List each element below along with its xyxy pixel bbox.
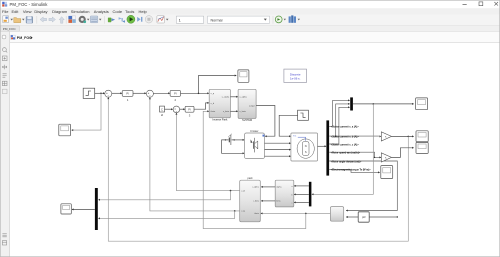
toolbar icon: stream input — [108, 18, 115, 23]
svg-text:PM_FOC: PM_FOC — [17, 36, 32, 40]
scope: speed 2a — [416, 131, 428, 142]
svg-text:u_alpha: u_alpha — [222, 97, 230, 99]
signal wire: stator current is_b to gain and mux — [329, 103, 381, 137]
svg-text:<Stator current is_c (A)>: <Stator current is_c (A)> — [331, 143, 360, 146]
svg-text:S: S — [305, 150, 307, 154]
constant block id reference — [160, 106, 165, 112]
svg-text:Simulation: Simulation — [71, 9, 90, 14]
svg-text:Normal: Normal — [211, 18, 223, 22]
node: currents branch junction — [373, 103, 375, 105]
menu bar — [0, 8, 500, 15]
wire: speed sum to PI1 — [112, 92, 122, 94]
app icon — [2, 2, 7, 7]
scope: stator currents — [416, 98, 428, 110]
wire: reference branch down to speed-ref scope — [72, 93, 101, 130]
signal wire: stator current is_a — [329, 99, 350, 126]
svg-text:PM_FOC - Simulink: PM_FOC - Simulink — [10, 2, 49, 7]
toolbar field: stop time — [176, 16, 203, 23]
breadcrumb bar — [0, 32, 500, 43]
torque step block (flipped) — [298, 110, 309, 120]
toolbar separator — [104, 16, 106, 24]
toolbar icon: settings gear — [79, 16, 90, 23]
svg-text:<Rotor speed wm (rad/s)>: <Rotor speed wm (rad/s)> — [331, 152, 361, 155]
svg-text:u_alpha: u_alpha — [239, 97, 247, 99]
sum junction speed loop — [105, 90, 112, 97]
svg-text:View: View — [23, 9, 32, 14]
svg-text:PM_FOC: PM_FOC — [3, 27, 17, 31]
wire: PI3 to inverse park u_d — [194, 103, 209, 109]
gain K2 — [381, 153, 391, 162]
wire: pi3 to angle subsystem — [346, 216, 358, 218]
wire: mux to currents scope — [353, 103, 414, 105]
svg-text:N: N — [305, 144, 307, 148]
wire: q sum to PI2 — [153, 92, 170, 94]
dc source battery — [225, 134, 235, 145]
PMSM motor block — [291, 133, 318, 161]
bus selector — [326, 120, 329, 175]
scope: iq voltage — [238, 70, 249, 82]
wire: d sum to PI3 — [180, 108, 185, 110]
palette bottom icon: model data — [2, 234, 6, 237]
model tab PM_FOC — [0, 26, 19, 32]
toolbar separator — [65, 16, 67, 24]
wire: inverter phase A to motor — [265, 142, 291, 144]
wire: thetam tap to pi3 input — [369, 216, 398, 217]
minimize button — [463, 4, 467, 6]
wire: currents branch down to demux — [312, 104, 373, 194]
svg-text:C: C — [161, 107, 163, 111]
svg-text:output: output — [249, 104, 255, 107]
svpwm subsystem — [238, 89, 256, 118]
wire: u_beta to svpwm — [230, 110, 237, 112]
breadcrumb arrow — [31, 36, 33, 39]
wire: clarke alpha to park — [261, 186, 275, 188]
inverter block Croiser — [245, 133, 265, 159]
toolbar icon: run (play) — [127, 15, 135, 23]
palette bottom icon: property inspector — [2, 241, 6, 245]
wire: constant to d-current sum — [165, 108, 173, 110]
palette button: hide browser — [2, 35, 6, 39]
svg-text:u_beta: u_beta — [223, 110, 230, 113]
palette icon: pan — [2, 65, 7, 70]
scope: dq currents (flipped) — [61, 204, 71, 214]
svg-text:1e-06 s.: 1e-06 s. — [290, 77, 301, 81]
toolbar icon: back — [40, 17, 47, 22]
wire: demux b to clarke — [294, 193, 309, 195]
svg-text:Diagram: Diagram — [52, 9, 68, 14]
wire: gain K2 to scope 2b — [392, 148, 414, 158]
wire: dc+ to inverter — [234, 139, 244, 141]
wire: u_alpha to svpwm — [230, 96, 237, 98]
toolbar icon: connect — [119, 17, 125, 23]
tab bar — [0, 26, 500, 32]
inverse park subsystem — [209, 89, 230, 118]
svg-text:Help: Help — [139, 9, 148, 14]
park subsystem (flipped) — [240, 180, 261, 222]
svg-text:Tools: Tools — [125, 9, 134, 14]
palette icon: sample time — [2, 81, 7, 85]
svg-text:alpha: alpha — [276, 187, 282, 189]
palette icon: fit view — [2, 56, 7, 61]
sum junction d current loop — [173, 106, 180, 113]
powergui block — [284, 69, 307, 82]
svg-text:Display: Display — [34, 9, 47, 14]
toolbar separator — [36, 16, 38, 24]
wire: park i_sd feedback to d sum — [98, 113, 240, 201]
svg-text:Analysis: Analysis — [94, 9, 109, 14]
svg-text:i_alpha: i_alpha — [252, 187, 260, 189]
maximize button — [479, 2, 483, 6]
toolbar icon: stop — [145, 16, 152, 23]
toolbar icon: library browser — [68, 16, 75, 23]
toolbar icon: forward — [49, 17, 56, 22]
svg-text:Edit: Edit — [12, 9, 20, 14]
svg-text:Code: Code — [113, 9, 123, 14]
signal wire: electromagnetic torque Te to scope — [329, 169, 380, 173]
scope: speed reference (flipped) — [59, 124, 71, 136]
gain block pi3 — [358, 212, 369, 222]
svg-text:<Rotor angle thetam (rad)>: <Rotor angle thetam (rad)> — [331, 160, 362, 163]
toolbar icon: new model — [3, 16, 13, 23]
step block speed reference — [83, 88, 95, 98]
signal wire: rotor angle thetam to angle subsystem — [329, 161, 397, 212]
wire: theta net to park and inverse park — [203, 110, 330, 228]
wire: mux to dq scope — [72, 208, 95, 210]
node: u_q scope branch junction — [198, 93, 200, 95]
wire: PI2 to inverse park u_q — [181, 92, 209, 94]
clarke subsystem (flipped) — [275, 180, 294, 207]
svg-text:PI: PI — [174, 92, 177, 96]
palette icon: zoom — [3, 48, 8, 53]
toolbar icon: model configuration — [90, 16, 101, 23]
wire: speed feedback loop to speed sum — [108, 98, 408, 242]
wire: gain K1 to scope — [392, 135, 414, 137]
sum junction q current loop — [146, 90, 153, 97]
scope: torque Te — [381, 166, 393, 179]
wire: motor measurement m to bus selector — [318, 145, 327, 147]
wire: demux a to clarke — [294, 185, 309, 187]
svg-text:u_beta: u_beta — [239, 110, 246, 113]
toolbar icon: open — [14, 18, 25, 23]
wire: inverter phase B to motor — [265, 149, 291, 151]
svg-text:park: park — [247, 176, 253, 180]
toolbar icon: save — [26, 17, 33, 24]
wire: demux c to clarke — [294, 201, 309, 203]
svg-text:Inverse Park: Inverse Park — [212, 118, 228, 122]
toolbar icon: refresh model — [275, 16, 286, 23]
mux: stator currents — [350, 97, 353, 110]
svg-text:Tm: Tm — [293, 136, 296, 138]
PI controller 1 — [122, 91, 133, 97]
gain K1 — [381, 132, 391, 141]
angle conversion subsystem (flipped) — [330, 207, 343, 222]
svg-text:Croiser: Croiser — [250, 129, 258, 133]
svg-text:File: File — [2, 9, 9, 14]
breadcrumb simulink badge — [11, 35, 15, 39]
toolbar — [0, 15, 500, 26]
svg-text:c: c — [292, 202, 293, 204]
toolbar icon: data inspector — [157, 16, 169, 23]
signal wire: stator current is_c — [329, 106, 350, 144]
PI controller 3 — [185, 106, 194, 112]
scope: speed 2b — [416, 142, 428, 153]
wire: dc- return loop — [222, 140, 245, 153]
toolbar icon: library forge — [289, 15, 300, 22]
wire: clarke beta to park — [261, 200, 275, 202]
PI controller 2 — [170, 91, 180, 97]
wire: step reference to speed sum — [95, 92, 105, 94]
svg-text:<Stator current is_a (A)>: <Stator current is_a (A)> — [331, 126, 360, 129]
svg-text:<Electromagnetic torque Te (N*: <Electromagnetic torque Te (N*m)> — [331, 169, 371, 172]
left palette strip — [0, 32, 10, 257]
toolbar combo: simulation mode Normal — [208, 16, 270, 23]
toolbar icon: up — [59, 17, 64, 24]
wire: inverter phase C to motor — [265, 155, 291, 157]
wire: torque step to motor Tm — [279, 115, 297, 136]
wire: PI1 to q-current sum — [133, 92, 146, 94]
title bar — [0, 0, 500, 8]
svg-text:i_beta: i_beta — [253, 200, 260, 203]
demux: abc currents — [309, 182, 312, 207]
toolbar icon: step forward — [137, 17, 142, 22]
palette icon: annotations — [3, 74, 7, 77]
close button — [494, 2, 498, 6]
wire: branch up to iq scope — [199, 76, 237, 94]
node: speed feedback junction — [408, 136, 410, 138]
svg-text:PI: PI — [188, 107, 191, 111]
svg-text:PI: PI — [126, 92, 129, 96]
palette icon: viewmarks — [2, 89, 7, 93]
mux: dq currents display — [95, 188, 98, 230]
signal wire: rotor speed wm to gain2 — [329, 152, 381, 158]
svg-text:<Stator current is_b (A)>: <Stator current is_b (A)> — [331, 135, 360, 138]
svg-text:SVPWM: SVPWM — [242, 118, 253, 122]
node: reference branch junction — [100, 93, 102, 95]
svg-text:pi3: pi3 — [362, 215, 366, 219]
toolbar separator — [272, 16, 274, 24]
wire: svpwm gate signal to inverter g — [256, 106, 275, 137]
wire: park i_sq feedback to q sum — [98, 97, 240, 219]
